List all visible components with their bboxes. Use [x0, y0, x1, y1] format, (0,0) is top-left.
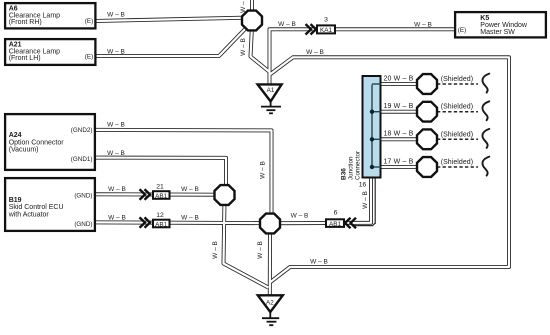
svg-text:AB1: AB1 — [329, 221, 342, 228]
svg-text:21: 21 — [156, 184, 164, 191]
svg-text:W – B: W – B — [306, 49, 324, 56]
svg-text:A1: A1 — [267, 87, 275, 94]
svg-text:6: 6 — [334, 209, 338, 216]
svg-text:(Shielded): (Shielded) — [441, 159, 473, 166]
svg-text:(Front LH): (Front LH) — [9, 55, 41, 62]
svg-text:A2: A2 — [266, 300, 274, 307]
svg-text:B19: B19 — [9, 197, 22, 204]
svg-text:(E): (E) — [458, 27, 466, 34]
svg-text:W – B: W – B — [108, 186, 126, 193]
svg-text:B36: B36 — [341, 168, 348, 180]
svg-text:(E): (E) — [85, 18, 93, 25]
svg-text:(Front RH): (Front RH) — [9, 19, 42, 26]
svg-text:KA1: KA1 — [320, 27, 333, 34]
svg-text:W – B: W – B — [108, 215, 126, 222]
svg-text:(E): (E) — [85, 53, 93, 60]
svg-text:Master SW: Master SW — [480, 29, 515, 36]
svg-text:A24: A24 — [9, 132, 22, 139]
svg-text:AB1: AB1 — [155, 193, 168, 200]
svg-text:(GND1): (GND1) — [71, 156, 93, 163]
svg-text:W – B: W – B — [414, 21, 432, 28]
svg-text:12: 12 — [156, 212, 164, 219]
svg-text:W – B: W – B — [362, 191, 369, 209]
svg-text:W – B: W – B — [257, 241, 264, 259]
svg-text:W – B: W – B — [240, 38, 247, 56]
svg-text:(Shielded): (Shielded) — [441, 104, 473, 111]
svg-text:16: 16 — [359, 182, 367, 189]
svg-text:with Actuator: with Actuator — [8, 211, 50, 218]
svg-text:20 W – B: 20 W – B — [384, 75, 414, 82]
svg-text:(GND): (GND) — [74, 221, 92, 228]
svg-text:Junction: Junction — [348, 156, 355, 180]
svg-text:19 W – B: 19 W – B — [384, 103, 414, 110]
svg-text:W – B: W – B — [107, 150, 125, 157]
svg-text:W – B: W – B — [310, 259, 328, 266]
svg-text:W – B: W – B — [107, 122, 125, 129]
svg-text:W – B: W – B — [212, 241, 219, 259]
svg-text:18 W – B: 18 W – B — [384, 131, 414, 138]
svg-text:Connector: Connector — [355, 151, 362, 180]
svg-text:W – B: W – B — [181, 215, 199, 222]
svg-text:W – B: W – B — [240, 0, 247, 13]
svg-text:(GND2): (GND2) — [71, 127, 93, 134]
svg-text:AB1: AB1 — [155, 221, 168, 228]
svg-text:(Vacuum): (Vacuum) — [9, 147, 39, 154]
svg-text:(Shielded): (Shielded) — [441, 76, 473, 83]
svg-text:W – B: W – B — [107, 11, 125, 18]
svg-text:(Shielded): (Shielded) — [441, 131, 473, 138]
svg-text:W – B: W – B — [259, 161, 266, 179]
svg-text:K5: K5 — [480, 15, 489, 22]
svg-text:W – B: W – B — [278, 21, 296, 28]
svg-text:(GND): (GND) — [74, 192, 92, 199]
svg-text:Skid Control ECU: Skid Control ECU — [9, 204, 64, 211]
svg-text:Option Connector: Option Connector — [9, 139, 65, 146]
svg-text:17 W – B: 17 W – B — [384, 158, 414, 165]
svg-text:3: 3 — [324, 17, 328, 24]
svg-text:W – B: W – B — [291, 212, 309, 219]
svg-text:W – B: W – B — [181, 186, 199, 193]
svg-text:W – B: W – B — [107, 48, 125, 55]
